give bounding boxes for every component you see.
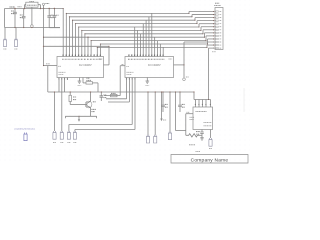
junction regulator input bbox=[24, 8, 25, 9]
label R3 value bbox=[190, 117, 195, 119]
wire IC2 pin 12 feed bbox=[159, 44, 161, 57]
wire bus line 8 left extension bbox=[43, 37, 89, 38]
connector pin CN2 bbox=[53, 92, 56, 139]
junction emitter bus bbox=[78, 116, 79, 117]
wire bus line 2 bbox=[69, 15, 214, 57]
IC U3 bottom pin stubs bbox=[127, 78, 135, 81]
IC U2 top pin names bbox=[62, 58, 101, 60]
IC U3 ground pin bbox=[146, 78, 150, 86]
junction +5V tap bbox=[43, 8, 44, 9]
junction +5V feeder / line 12 bbox=[43, 46, 44, 47]
wire R3 to C8 bbox=[200, 134, 203, 136]
junction pin11 wire bbox=[183, 64, 184, 65]
wire bus line 11 bbox=[97, 45, 214, 56]
wire IC2 pin 11 feed bbox=[157, 41, 159, 57]
wire IC2 pin 7 feed bbox=[145, 20, 147, 56]
wire bus line 1 bbox=[66, 12, 214, 57]
capacitor C4 bbox=[53, 9, 59, 28]
wire connector pin 13 drop bbox=[209, 48, 215, 99]
label +5V flag bbox=[42, 3, 49, 8]
wire U4 top rail bbox=[194, 99, 211, 101]
junction J2 drop / U4 rail bbox=[208, 99, 209, 100]
junction PD1 rail bbox=[161, 91, 162, 92]
wire IC2 pin 10 feed bbox=[154, 37, 156, 56]
wire left input drop bbox=[4, 9, 6, 28]
label input net bbox=[18, 6, 22, 8]
power flag P1 bbox=[183, 77, 189, 81]
svg-text:Company Name: Company Name bbox=[191, 157, 229, 163]
junction CN2 rail bbox=[54, 91, 55, 92]
IC U3 left pin bbox=[120, 64, 125, 65]
svg-text:created by Schematics: created by Schematics bbox=[14, 127, 35, 130]
label watermark bbox=[14, 127, 35, 130]
capacitor C2 bbox=[20, 9, 26, 28]
capacitor C1 bbox=[11, 9, 17, 28]
junction R1 top bbox=[70, 91, 71, 92]
wire R2 to rail bbox=[97, 83, 99, 92]
wire regulator ground pin bbox=[31, 7, 33, 25]
capacitor C7 bbox=[178, 92, 185, 112]
wire bus line 10 bbox=[100, 39, 214, 57]
IC U4 top pin wires bbox=[196, 100, 211, 108]
wire GND rail extension bbox=[49, 27, 60, 29]
junction C3 top bbox=[49, 8, 50, 9]
wire connector pin 11 to flag bbox=[184, 42, 214, 78]
wire IC1 rail drop pin 1 bbox=[63, 8, 64, 57]
capacitor C5 bbox=[100, 92, 107, 101]
wire bus line 9 bbox=[91, 36, 215, 57]
IC U2 left pin labels bbox=[58, 59, 102, 75]
junction CN6 rail bbox=[155, 91, 156, 92]
wire R3 feed from rail bbox=[176, 92, 186, 131]
wire IC U3 left pin run bbox=[104, 66, 120, 97]
IC U2 right pin bbox=[104, 64, 110, 66]
wire IC U2 left pin drop bbox=[48, 66, 55, 92]
wire IC2 pin 6 feed bbox=[142, 24, 144, 57]
junction C1 bottom bbox=[14, 27, 15, 28]
IC U2 top pin stubs bbox=[63, 54, 100, 56]
IC U3 top pin numbers bbox=[128, 54, 164, 56]
wire IC U3 bottom pin 2 run bbox=[108, 80, 129, 102]
wire R1 to base bbox=[70, 104, 85, 106]
IC U2 value label bbox=[79, 65, 92, 67]
connector pin CN6 bbox=[154, 92, 157, 143]
junction U4 riser bbox=[193, 91, 194, 92]
wire bus line 3 bbox=[72, 18, 214, 57]
wire IC2 pin 13 feed bbox=[162, 47, 164, 56]
connector J1 pin 1 bbox=[3, 28, 6, 50]
label bottom pins bbox=[53, 142, 76, 144]
capacitor C8 bbox=[196, 130, 204, 138]
wire IC2 pin 3 feed bbox=[134, 27, 136, 57]
label Company Name bbox=[191, 157, 229, 163]
wire bus line 7 bbox=[84, 30, 214, 57]
wire R2 left feed bbox=[82, 78, 84, 83]
junction C6 rail bbox=[162, 91, 163, 92]
junction C2 bottom bbox=[23, 27, 24, 28]
IC U2 ground pin bbox=[78, 78, 82, 86]
IC U3 value label bbox=[148, 65, 161, 67]
connector pin CN4 bbox=[67, 131, 70, 139]
junction CN7 rail bbox=[169, 91, 170, 92]
connector J1 pin 2 bbox=[14, 28, 17, 50]
resistor R2 bbox=[83, 78, 98, 84]
connector J2 pin pads bbox=[216, 11, 222, 49]
wire IC U2 bottom pin 3 drop bbox=[64, 80, 66, 92]
IC U3 left pin labels bbox=[126, 59, 172, 75]
IC U2 CD4067 box bbox=[57, 57, 104, 78]
junction C5 top bbox=[101, 91, 102, 92]
junction R3 feed rail bbox=[175, 91, 176, 92]
wire IC2 pin 8 feed bbox=[148, 17, 150, 57]
wire lower rail bbox=[55, 91, 195, 93]
wire bus line 8 bbox=[87, 33, 214, 57]
junction C4 top bbox=[54, 8, 55, 9]
wire IC U3 bottom pin 4 run bbox=[75, 80, 135, 131]
ground symbol regulator bbox=[31, 25, 34, 28]
resistor R1 bbox=[69, 92, 76, 105]
wire IC2 pin 4 feed bbox=[137, 30, 139, 56]
transistor Q1 bbox=[85, 101, 96, 112]
junction C1 top bbox=[14, 8, 15, 9]
junction regulator output bbox=[40, 8, 41, 9]
connector pin CN1 blue bbox=[24, 133, 27, 141]
wire emitter bus bbox=[65, 116, 96, 118]
connector pin CN5b bbox=[73, 131, 76, 139]
wire IC U3 bottom pin 1 run bbox=[106, 80, 127, 99]
wire bus line 6 bbox=[81, 27, 214, 57]
IC U4 labels bbox=[196, 112, 212, 126]
IC U3 bottom pin numbers bbox=[126, 78, 136, 80]
connector pin CN5 bbox=[146, 92, 149, 143]
IC U4 pin numbers bbox=[195, 103, 211, 105]
resistor R3 bbox=[186, 114, 200, 145]
wire bus line 5 bbox=[78, 24, 214, 57]
wire bus line 4 bbox=[75, 21, 214, 57]
connector J2 label bbox=[212, 3, 221, 52]
label +9V bbox=[10, 6, 16, 8]
wire +5V feeder bbox=[43, 9, 45, 66]
IC U2 bottom pin stubs bbox=[59, 78, 67, 81]
power flag down PD1 bbox=[160, 92, 166, 121]
IC U3 CD4067 box bbox=[125, 57, 174, 78]
wire U4 supply riser bbox=[193, 92, 195, 100]
IC U2 bottom pin numbers bbox=[58, 78, 68, 80]
label IC U2 left pin net bbox=[46, 63, 50, 65]
junction CN5 rail bbox=[147, 91, 148, 92]
ground symbol C8 bbox=[200, 138, 204, 140]
wire GND rail bbox=[5, 27, 61, 29]
capacitor C3 bbox=[47, 9, 54, 28]
wire IC U3 bottom pin 3 run bbox=[69, 80, 132, 131]
fold mark bbox=[243, 88, 245, 112]
IC U4 box bbox=[193, 107, 213, 130]
title block frame bbox=[171, 155, 248, 164]
ground symbol emitter bbox=[78, 116, 80, 122]
wire +9V rail bbox=[5, 8, 64, 10]
wire IC2 pin 9 feed bbox=[151, 13, 153, 56]
connector J2 pin arrows bbox=[213, 11, 215, 49]
wire Q1 emitter bbox=[90, 108, 92, 117]
svg-text:IC2 CD4067: IC2 CD4067 bbox=[79, 65, 92, 67]
IC U3 right pin bbox=[174, 64, 185, 66]
IC U2 left pin bbox=[43, 65, 57, 66]
connector J2 box bbox=[215, 8, 223, 50]
wire IC U2 bottom pin 1 drop bbox=[58, 80, 60, 92]
wire IC2 pin 5 feed bbox=[139, 34, 141, 57]
junction Q1 collector bbox=[90, 91, 91, 92]
wire bus line 12 to IC1 right pin bbox=[44, 46, 110, 65]
IC U4 left pin bbox=[186, 112, 193, 114]
voltage regulator U1 bbox=[25, 2, 41, 9]
connector pin CN3 bbox=[60, 80, 63, 139]
junction C7 rail bbox=[179, 91, 180, 92]
capacitor C6 bbox=[161, 92, 168, 112]
svg-text:IC3 CD4067: IC3 CD4067 bbox=[148, 65, 161, 67]
IC U3 top pin names bbox=[128, 58, 164, 60]
connector pin CN8 bbox=[196, 130, 213, 152]
wire Q1 collector bbox=[90, 92, 92, 101]
connector pin CN7 bbox=[168, 92, 171, 140]
IC U2 top pin numbers bbox=[62, 54, 101, 56]
IC U3 top pin stubs bbox=[129, 54, 163, 56]
